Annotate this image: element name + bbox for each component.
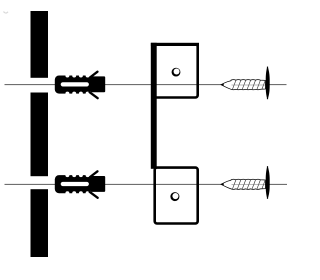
wall plug bottom (55, 171, 105, 198)
bracket hole bottom (170, 192, 179, 201)
bracket top edge (151, 43, 199, 46)
axis line top (5, 84, 287, 86)
bracket top plate (154, 44, 198, 97)
screw top (221, 66, 270, 99)
wall section middle (31, 93, 49, 177)
bracket hole top (172, 68, 181, 77)
wall section top (31, 11, 49, 78)
bracket spine (151, 43, 157, 169)
bracket bottom plate (155, 168, 198, 224)
wall section bottom (31, 189, 49, 257)
axis line bottom (5, 183, 288, 185)
faint artifact mark top-left (4, 12, 9, 14)
screw bottom (221, 166, 270, 199)
wall plug top (55, 72, 105, 99)
